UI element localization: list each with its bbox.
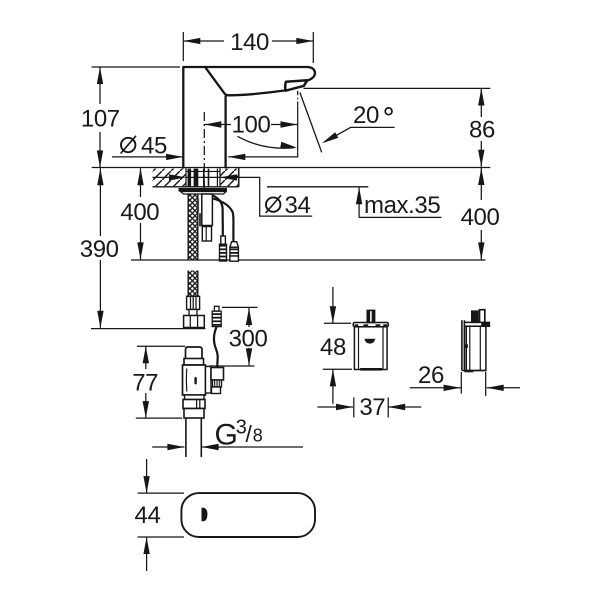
dimension 77 xyxy=(137,345,185,347)
svg-text:400: 400 xyxy=(461,204,500,231)
svg-text:/: / xyxy=(246,421,253,447)
dimension 44 xyxy=(146,459,148,571)
dimension max.35 xyxy=(359,187,442,217)
hose nut G3/8 xyxy=(184,316,205,328)
faucet centerline (dash-dot) xyxy=(203,112,205,224)
svg-text:390: 390 xyxy=(80,236,119,263)
solenoid valve assembly xyxy=(183,347,224,418)
valve slot mark xyxy=(194,377,196,385)
svg-text:45: 45 xyxy=(141,132,167,159)
mounting washer under deck xyxy=(179,188,228,192)
sensor window mark xyxy=(202,508,208,522)
svg-text:max.35: max.35 xyxy=(364,192,440,219)
control connector plug on cable xyxy=(214,306,219,311)
dimension 100 xyxy=(204,124,297,126)
dimension 300 xyxy=(222,306,258,308)
cable conduit tube xyxy=(202,194,213,226)
svg-text:300: 300 xyxy=(229,325,268,352)
dimension G 3/8 xyxy=(152,446,184,448)
hole edges xyxy=(186,168,220,187)
dimension diameter 45 xyxy=(121,138,135,152)
svg-text:100: 100 xyxy=(232,112,271,139)
dimension 400 left xyxy=(140,168,142,259)
dimension 400 right xyxy=(480,168,482,259)
dimension 48 (box front) xyxy=(324,287,351,323)
outlet pipe below valve xyxy=(186,418,201,457)
shank top flange line xyxy=(186,170,220,172)
390 reference line xyxy=(91,328,206,330)
sensor cable B xyxy=(213,199,233,227)
spray 20 degree line xyxy=(300,93,322,153)
S cable from plug to valve xyxy=(214,327,218,368)
spray centerline (dash-dot vertical from aerator) xyxy=(297,91,299,157)
svg-text:44: 44 xyxy=(135,502,161,529)
svg-text:G: G xyxy=(215,419,238,452)
connector plug A xyxy=(220,228,227,261)
svg-text:140: 140 xyxy=(230,29,269,56)
svg-text:37: 37 xyxy=(359,394,385,421)
grohe logo mark xyxy=(364,339,375,344)
braided hose lower continuation xyxy=(188,271,198,297)
svg-text:48: 48 xyxy=(320,334,346,361)
svg-text:34: 34 xyxy=(285,192,311,219)
twin connector block xyxy=(202,227,211,242)
connector plug B xyxy=(230,226,239,261)
cable along hose xyxy=(197,199,199,212)
svg-text:77: 77 xyxy=(132,369,158,396)
dimension 140 xyxy=(183,32,313,63)
dimension 86 xyxy=(304,87,491,89)
dimension 37 xyxy=(354,398,388,418)
svg-text:86: 86 xyxy=(469,116,495,143)
angle arc leader xyxy=(238,136,295,148)
dimension diameter 34 xyxy=(153,177,313,216)
deck hatch left xyxy=(153,169,187,187)
mounting flange trapezoid xyxy=(181,192,227,195)
braided supply hose upper xyxy=(188,194,198,260)
svg-text:107: 107 xyxy=(81,106,120,133)
control box side view xyxy=(462,310,490,371)
deck hatch right xyxy=(220,169,239,187)
faucet body outline xyxy=(183,67,315,168)
control box front view xyxy=(353,310,388,369)
hose crimp collar xyxy=(187,296,200,309)
dimension 107 xyxy=(92,66,180,68)
svg-text:20: 20 xyxy=(353,102,379,129)
hose neck xyxy=(189,310,197,316)
svg-text:8: 8 xyxy=(253,426,263,446)
faucet top view capsule xyxy=(181,493,315,537)
deck top line xyxy=(92,167,491,169)
deck bottom line xyxy=(153,186,369,188)
svg-text:400: 400 xyxy=(120,199,159,226)
sensor cable A xyxy=(212,196,222,229)
dimension 390 xyxy=(99,168,101,328)
svg-text:26: 26 xyxy=(418,362,444,389)
faucet shank through deck xyxy=(188,169,218,187)
lower reference line xyxy=(131,259,486,261)
faucet aerator outlet xyxy=(285,80,307,91)
